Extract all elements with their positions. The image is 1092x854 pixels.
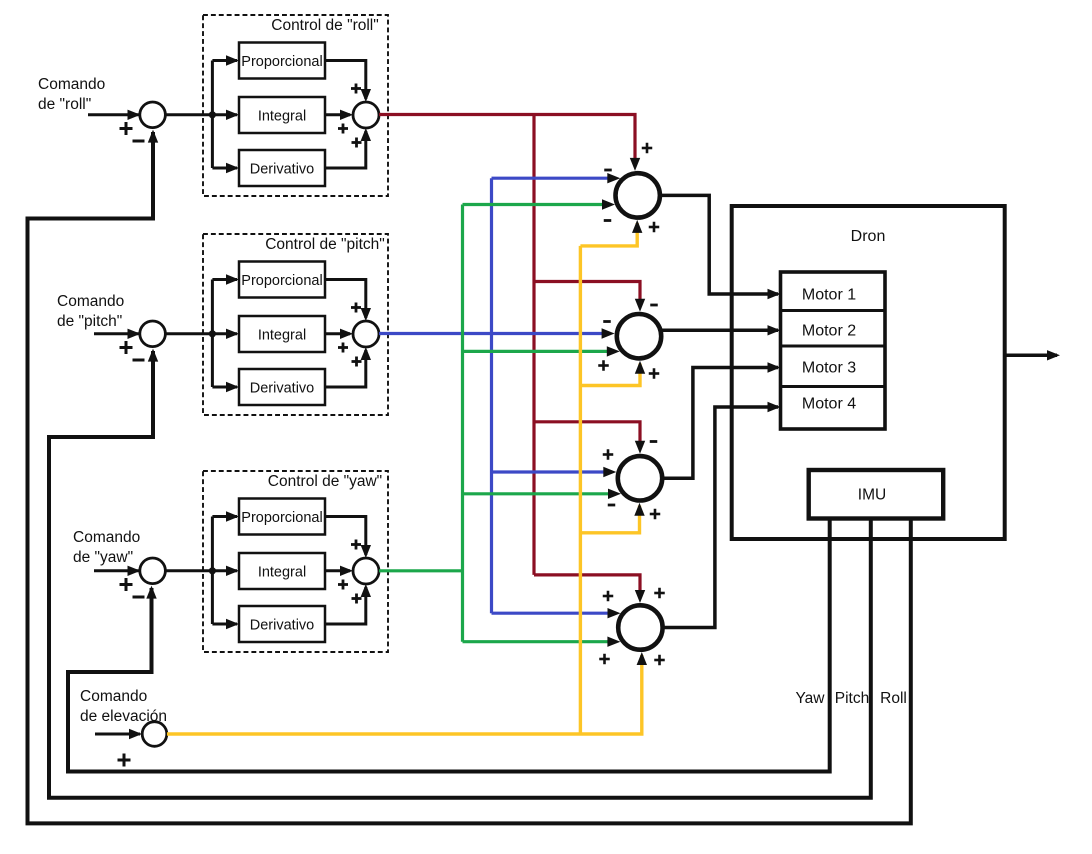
sign plus Proporcional (pitch) xyxy=(351,306,361,309)
arrow blue into mixer M4 left xyxy=(608,608,621,618)
divider Motor1/Motor2 xyxy=(781,309,886,312)
arrow green into mixer M2 left-bottom xyxy=(607,346,620,356)
svg-text:Motor 2: Motor 2 xyxy=(802,323,856,340)
wire: green branch to mixer 1 xyxy=(463,203,604,206)
node: junction dot (yaw) xyxy=(209,567,216,574)
sign plus at elevation circle xyxy=(118,759,131,762)
svg-text:Motor 4: Motor 4 xyxy=(802,396,856,413)
sign minus for green input at M1 xyxy=(604,219,612,222)
svg-text:de "yaw": de "yaw" xyxy=(73,549,133,566)
sign minus at input circle (pitch) xyxy=(133,359,145,362)
sign plus Proporcional (yaw) xyxy=(351,543,361,546)
wire: pitch PID output (blue) to mixer 2 xyxy=(379,332,603,335)
sign minus for green input at M3 xyxy=(608,504,616,507)
svg-text:Derivativo: Derivativo xyxy=(250,381,314,397)
wire: blue branch to mixer 3 xyxy=(492,470,605,473)
wire: Integral output to sum (pitch) xyxy=(325,332,350,335)
svg-text:Motor 3: Motor 3 xyxy=(802,360,856,377)
arrow green into mixer M4 left-bottom xyxy=(607,637,620,647)
svg-text:Integral: Integral xyxy=(258,565,306,581)
wire: Dron output arrow xyxy=(1005,354,1057,358)
wire: Proporcional output to sum (yaw) xyxy=(325,517,366,556)
box Integral (roll) xyxy=(239,97,325,133)
svg-text:Motor 1: Motor 1 xyxy=(802,287,856,304)
arrow green into mixer M3 left-bottom xyxy=(608,489,621,499)
arrow dark red into mixer M2 top xyxy=(635,299,645,312)
wire: roll PID output (dark red) to mixer 1 xyxy=(379,115,635,161)
arrow green into mixer M1 left-bottom xyxy=(602,199,615,209)
wire: dark red branch to mixer 4 xyxy=(534,575,640,592)
sign plus for yellow input at M1 xyxy=(649,226,660,229)
wire: elevation output (yellow) to mixer 4 xyxy=(167,655,642,734)
sign plus Proporcional (roll) xyxy=(351,87,361,90)
summing circle input (yaw) xyxy=(140,558,166,584)
svg-text:Comando: Comando xyxy=(80,688,147,705)
wire: circle to junction to Integral (yaw) xyxy=(166,569,237,572)
svg-text:de "roll": de "roll" xyxy=(38,96,91,113)
wire: yellow vertical trunk xyxy=(579,246,582,736)
sign plus for dark red input at M1 xyxy=(642,147,653,150)
sign plus Derivativo (pitch) xyxy=(352,360,362,363)
divider Motor2/Motor3 xyxy=(781,345,886,348)
wire: branch to Proporcional (pitch) xyxy=(212,278,237,281)
box Proporcional (roll) xyxy=(239,43,325,79)
box Integral (pitch) xyxy=(239,316,325,352)
arrow blue into mixer M1 left xyxy=(607,173,620,183)
svg-text:IMU: IMU xyxy=(858,487,886,504)
dashed box: Control de "yaw" xyxy=(203,471,388,652)
svg-text:Yaw: Yaw xyxy=(795,690,825,707)
sign plus for green input at M4 xyxy=(599,658,610,661)
summing circle PID output (roll) xyxy=(353,102,379,128)
wire: mixer M3 output to Motor 3 xyxy=(662,368,778,479)
wire: Integral output to sum (roll) xyxy=(325,113,350,116)
wire: green branch to mixer 2 xyxy=(463,350,609,353)
wire: input line into summing circle (roll) xyxy=(88,113,139,116)
wire: green branch to mixer 4 xyxy=(463,640,609,643)
wire: input line into summing circle (yaw) xyxy=(94,569,139,572)
box Integral (yaw) xyxy=(239,553,325,589)
sign plus at input circle (pitch) xyxy=(120,346,133,349)
mixer summing circle M1 xyxy=(616,173,660,217)
wire: dark red vertical trunk xyxy=(532,113,535,575)
arrow dark red into mixer M3 top xyxy=(635,441,645,454)
wire: yaw PID output (green) xyxy=(379,569,463,572)
wire: branch to Proporcional (yaw) xyxy=(212,515,237,518)
wire: mixer M1 output to Motor 1 xyxy=(660,195,779,294)
svg-text:Pitch: Pitch xyxy=(835,690,869,707)
wire: circle to junction to Integral (roll) xyxy=(166,113,237,116)
sign plus for blue input at M4 xyxy=(603,595,614,598)
wire: yellow branch to mixer 1 xyxy=(580,223,637,246)
wire: blue branch to mixer 4 xyxy=(492,612,609,615)
wire: branch to Derivativo (yaw) xyxy=(212,623,237,626)
wire: blue vertical trunk xyxy=(490,178,493,613)
wire: branch vertical (yaw) xyxy=(211,517,214,625)
sign plus for yellow input at M3 xyxy=(650,513,661,516)
wire: Proporcional output to sum (roll) xyxy=(325,61,366,100)
wire: elevation input arrow xyxy=(95,733,140,736)
svg-text:Control de "pitch": Control de "pitch" xyxy=(265,236,385,253)
sign minus for blue input at M1 xyxy=(604,169,612,172)
arrow yellow into mixer M3 bottom xyxy=(634,503,644,516)
IMU box xyxy=(809,470,944,519)
arrow blue into mixer M3 left xyxy=(603,467,616,477)
wire: yellow branch to mixer 2 xyxy=(580,364,640,386)
svg-text:de "pitch": de "pitch" xyxy=(57,313,122,330)
svg-text:Derivativo: Derivativo xyxy=(250,618,314,634)
wire: branch to Proporcional (roll) xyxy=(212,59,237,62)
wire: branch vertical (roll) xyxy=(211,61,214,169)
wire: roll feedback path from IMU xyxy=(28,132,911,823)
box Proporcional (yaw) xyxy=(239,499,325,535)
sign minus at input circle (yaw) xyxy=(133,596,145,599)
sign plus for yellow input at M4 xyxy=(654,659,665,662)
wire: Derivativo output to sum (roll) xyxy=(325,131,366,168)
wire: Proporcional output to sum (pitch) xyxy=(325,280,366,319)
wire: blue branch to mixer 1 xyxy=(492,177,609,180)
svg-text:Comando: Comando xyxy=(38,76,105,93)
dashed box: Control de "roll" xyxy=(203,15,388,196)
box Derivativo (yaw) xyxy=(239,606,325,642)
wire: Derivativo output to sum (yaw) xyxy=(325,587,366,624)
arrow yellow into mixer M2 bottom xyxy=(635,361,645,374)
summing circle input (pitch) xyxy=(140,321,166,347)
wire: circle to junction to Integral (pitch) xyxy=(166,332,237,335)
sign plus at input circle (yaw) xyxy=(120,583,133,586)
sign plus for blue input at M3 xyxy=(603,453,614,456)
sign minus for blue input at M2 xyxy=(603,320,611,323)
wire: branch vertical (pitch) xyxy=(211,280,214,388)
sign plus Integral (roll) xyxy=(338,127,348,130)
arrow yellow into mixer M1 bottom xyxy=(632,220,642,233)
sign minus at input circle (roll) xyxy=(133,140,145,143)
Motor block outer box xyxy=(781,272,886,429)
summing circle PID output (pitch) xyxy=(353,321,379,347)
divider Motor3/Motor4 xyxy=(781,385,886,388)
sign plus at input circle (roll) xyxy=(120,127,133,130)
box Derivativo (pitch) xyxy=(239,369,325,405)
svg-text:Proporcional: Proporcional xyxy=(241,510,322,526)
box Proporcional (pitch) xyxy=(239,262,325,298)
dashed box: Control de "pitch" xyxy=(203,234,388,415)
Dron box xyxy=(732,206,1005,539)
sign plus Derivativo (yaw) xyxy=(352,597,362,600)
sign plus for dark red input at M4 xyxy=(654,592,665,595)
summing circle input (roll) xyxy=(140,102,166,128)
svg-text:Integral: Integral xyxy=(258,328,306,344)
wire: yaw feedback path from IMU xyxy=(68,518,830,772)
wire: Integral output to sum (yaw) xyxy=(325,569,350,572)
wire: mixer M4 output to Motor 4 xyxy=(663,407,779,628)
svg-text:Control de "yaw": Control de "yaw" xyxy=(268,473,382,490)
wire: dark red branch to mixer 2 xyxy=(534,282,640,302)
mixer summing circle M4 xyxy=(618,605,662,649)
wire: input line into summing circle (pitch) xyxy=(94,332,139,335)
arrow dark red into mixer M1 top xyxy=(630,158,640,171)
arrow dark red into mixer M4 top xyxy=(635,590,645,603)
sign plus Integral (yaw) xyxy=(338,583,348,586)
wire: yellow branch to mixer 3 xyxy=(580,506,639,533)
svg-text:Proporcional: Proporcional xyxy=(241,54,322,70)
svg-text:Comando: Comando xyxy=(73,529,140,546)
node: junction dot (pitch) xyxy=(209,330,216,337)
wire: pitch feedback path from IMU xyxy=(49,351,871,798)
wire: branch to Derivativo (pitch) xyxy=(212,386,237,389)
box Derivativo (roll) xyxy=(239,150,325,186)
node: junction dot (roll) xyxy=(209,111,216,118)
svg-text:Integral: Integral xyxy=(258,109,306,125)
wire: green vertical trunk xyxy=(461,205,464,642)
wire: mixer M2 output to Motor 2 xyxy=(661,329,779,333)
sign minus for dark red input at M3 xyxy=(650,440,658,443)
wire: green branch to mixer 3 xyxy=(463,492,610,495)
wire: branch to Derivativo (roll) xyxy=(212,167,237,170)
svg-text:Dron: Dron xyxy=(851,228,886,245)
sign plus Integral (pitch) xyxy=(338,346,348,349)
sign plus for green input at M2 xyxy=(598,364,609,367)
arrow yellow into mixer M4 bottom xyxy=(637,652,647,665)
svg-text:Proporcional: Proporcional xyxy=(241,273,322,289)
svg-text:Derivativo: Derivativo xyxy=(250,162,314,178)
mixer summing circle M3 xyxy=(618,456,662,500)
wire: Derivativo output to sum (pitch) xyxy=(325,350,366,387)
svg-text:Comando: Comando xyxy=(57,293,124,310)
mixer summing circle M2 xyxy=(617,314,661,358)
summing circle PID output (yaw) xyxy=(353,558,379,584)
sign minus for dark red input at M2 xyxy=(650,304,658,307)
svg-text:Control de "roll": Control de "roll" xyxy=(271,17,379,34)
arrow blue into mixer M2 left xyxy=(602,328,615,338)
sign plus Derivativo (roll) xyxy=(352,141,362,144)
svg-text:Roll: Roll xyxy=(880,690,907,707)
wire: dark red branch to mixer 3 xyxy=(534,422,640,443)
summing circle elevation xyxy=(142,722,167,747)
sign plus for yellow input at M2 xyxy=(649,372,660,375)
